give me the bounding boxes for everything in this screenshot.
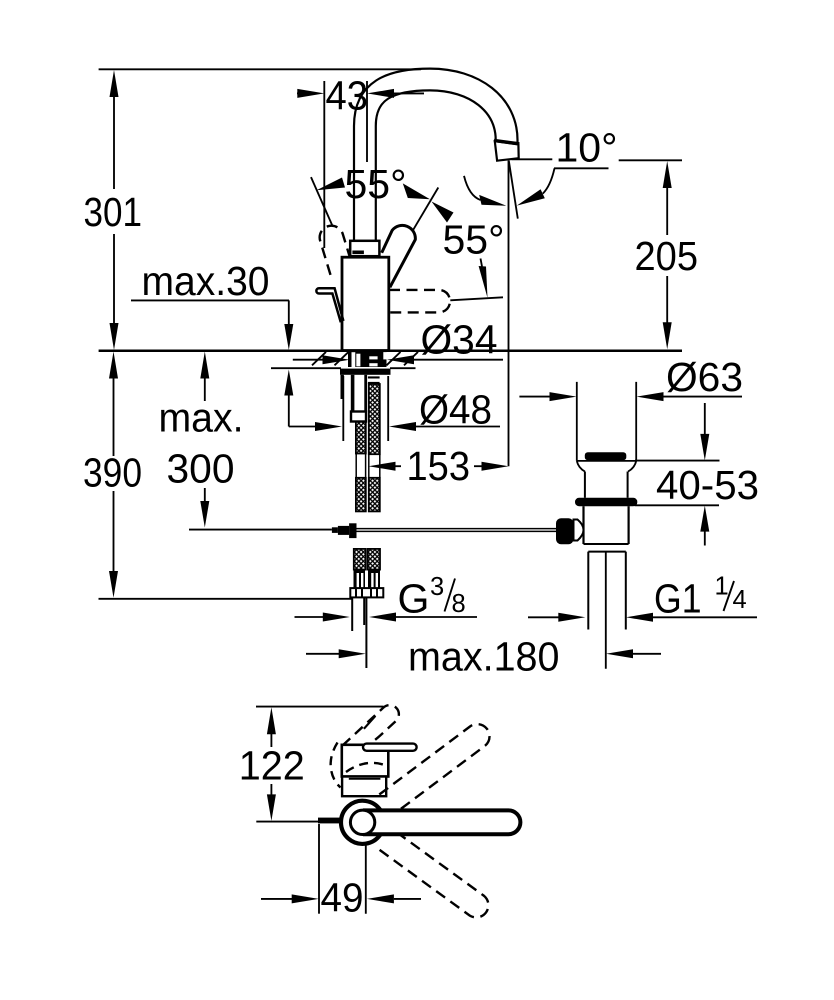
hose lower braid right <box>368 549 380 570</box>
pop-up rod single line <box>189 529 332 531</box>
stud lines gap <box>356 454 365 478</box>
outer circle <box>341 801 381 844</box>
spout bar (top view) <box>363 810 520 834</box>
faucet body <box>342 257 389 350</box>
dashed spout swing upper (top view) <box>379 724 489 814</box>
49 left extension <box>318 824 320 914</box>
knob connector <box>574 520 584 541</box>
drain neck walls <box>585 472 628 498</box>
svg-text:G: G <box>398 576 430 622</box>
svg-text:390: 390 <box>83 450 142 496</box>
stray dashed arcs <box>331 743 385 788</box>
max.180 dimension <box>306 649 661 658</box>
svg-text:max.30: max.30 <box>142 258 270 304</box>
top extension line (301) <box>99 68 421 70</box>
dim 390 vertical <box>109 352 118 598</box>
axis arrowhead upper-left <box>403 183 430 199</box>
40-53 top extension <box>635 460 720 462</box>
dim 205 vertical <box>663 161 672 349</box>
svg-text:10°: 10° <box>556 125 618 171</box>
deck line <box>99 350 682 353</box>
pull rod hook <box>316 288 343 322</box>
svg-text:3: 3 <box>430 573 444 601</box>
rod double line <box>357 529 557 532</box>
svg-text:49: 49 <box>321 875 364 921</box>
Oe34 leader <box>293 355 503 364</box>
drain plug seal <box>585 452 627 460</box>
dim 49 <box>261 894 421 903</box>
rod coupler blocks <box>332 523 357 538</box>
svg-text:Ø34: Ø34 <box>421 317 498 363</box>
55deg upper: arrowhead <box>317 178 346 191</box>
connector nut <box>350 588 383 597</box>
swing arc left <box>464 176 481 200</box>
stud threaded hatch lower <box>356 478 366 512</box>
drain flare <box>577 461 636 472</box>
tailpipe center line <box>605 552 607 669</box>
counter underside left <box>271 367 341 369</box>
40-53 bottom extension <box>635 504 720 506</box>
lever axis line <box>412 188 438 232</box>
svg-text:205: 205 <box>635 233 699 279</box>
205 top extension <box>619 159 682 161</box>
inner circle <box>350 810 374 834</box>
swing arc right <box>543 168 555 193</box>
hose braid upper <box>369 384 380 454</box>
hose end fittings <box>354 570 381 589</box>
locknut skirt left <box>341 375 344 399</box>
svg-text:1: 1 <box>715 573 729 601</box>
svg-text:max.180: max.180 <box>408 634 560 680</box>
drain flange <box>575 498 637 506</box>
40-53 arrows <box>700 403 709 546</box>
390 bottom extension <box>99 598 353 600</box>
dim 122 vertical <box>267 707 276 821</box>
svg-text:8: 8 <box>452 590 466 618</box>
mounting stud tube <box>353 375 366 412</box>
body rect (top view) <box>342 777 386 797</box>
49 right extension <box>365 846 367 914</box>
axis arrowhead lower-right <box>432 202 454 223</box>
spout gooseneck outline <box>365 80 507 243</box>
Oe48 extension lines <box>343 376 388 441</box>
stud nut <box>351 412 366 422</box>
text G 3/8 <box>398 573 466 622</box>
swing arrowhead left <box>479 195 506 206</box>
svg-text:55°: 55° <box>443 217 505 263</box>
153 dimension <box>369 462 509 471</box>
vertical reference line from spout <box>508 161 510 467</box>
55 lower leader line <box>450 297 503 300</box>
svg-text:4: 4 <box>733 586 747 614</box>
svg-text:40-53: 40-53 <box>656 462 759 508</box>
dashed lever A up-left (top view) <box>343 705 399 755</box>
svg-text:301: 301 <box>84 189 143 235</box>
G1 1/4 dimension <box>528 613 757 622</box>
rod knob <box>556 518 574 544</box>
10deg leader <box>512 158 553 160</box>
55 lower arrowhead <box>479 266 488 298</box>
lever bar (top view) <box>363 744 417 751</box>
solid lever raised <box>382 225 416 287</box>
svg-text:G1: G1 <box>654 576 702 622</box>
stud threaded hatch upper <box>356 422 366 454</box>
43 extension left <box>323 81 325 248</box>
drain body bottom lines <box>584 543 629 545</box>
lever A solid segment <box>364 716 376 729</box>
max.30 underline <box>131 299 289 301</box>
collar <box>350 241 379 256</box>
svg-text:Ø63: Ø63 <box>666 354 743 400</box>
text G1 1/4 <box>654 573 747 622</box>
tailpipe walls <box>588 552 626 630</box>
dashed spout swing lower (top view) <box>380 830 489 917</box>
122 bottom extension <box>256 821 318 823</box>
hose braid lower <box>369 478 380 512</box>
55deg upper: angle line <box>311 177 333 227</box>
drain cylinder bottom line <box>577 460 636 462</box>
locknut top bar <box>340 369 391 375</box>
hose ferrule <box>368 376 380 384</box>
body inner line <box>349 778 381 780</box>
swing arrowhead right <box>517 189 545 205</box>
collar tick <box>352 251 364 255</box>
hose lower braid left <box>354 549 366 570</box>
svg-text:43: 43 <box>326 73 369 119</box>
drain body walls <box>584 506 629 544</box>
svg-text:max.: max. <box>159 395 244 441</box>
43 extension right <box>366 81 368 162</box>
122 top extension <box>256 706 384 708</box>
dim 43 <box>297 89 424 98</box>
Oe48 dimension <box>289 422 500 431</box>
G3/8 dimension <box>295 613 478 622</box>
rod tab (top view) <box>318 818 341 824</box>
10deg underline <box>554 167 609 169</box>
svg-text:153: 153 <box>407 443 471 489</box>
svg-text:122: 122 <box>239 743 305 789</box>
dim 301 vertical <box>110 70 119 350</box>
aerator tip box <box>494 140 519 160</box>
deck hatch strokes <box>312 352 418 365</box>
10deg tilted line <box>509 161 518 219</box>
dim max300 vertical <box>200 352 209 528</box>
hose lines gap <box>369 454 380 478</box>
cartridge box (top view) <box>342 745 389 777</box>
Oe63 dimension <box>519 392 742 401</box>
svg-text:300: 300 <box>167 446 235 492</box>
supply tube <box>352 597 366 668</box>
counter underside right <box>390 367 416 369</box>
drain top cylinder walls <box>577 382 636 461</box>
dashed lever horizontal <box>389 290 450 313</box>
shank thread block <box>348 352 387 368</box>
max.30 dimension <box>284 300 293 426</box>
svg-text:55°: 55° <box>345 161 407 207</box>
dashed lever up-left <box>320 226 350 275</box>
